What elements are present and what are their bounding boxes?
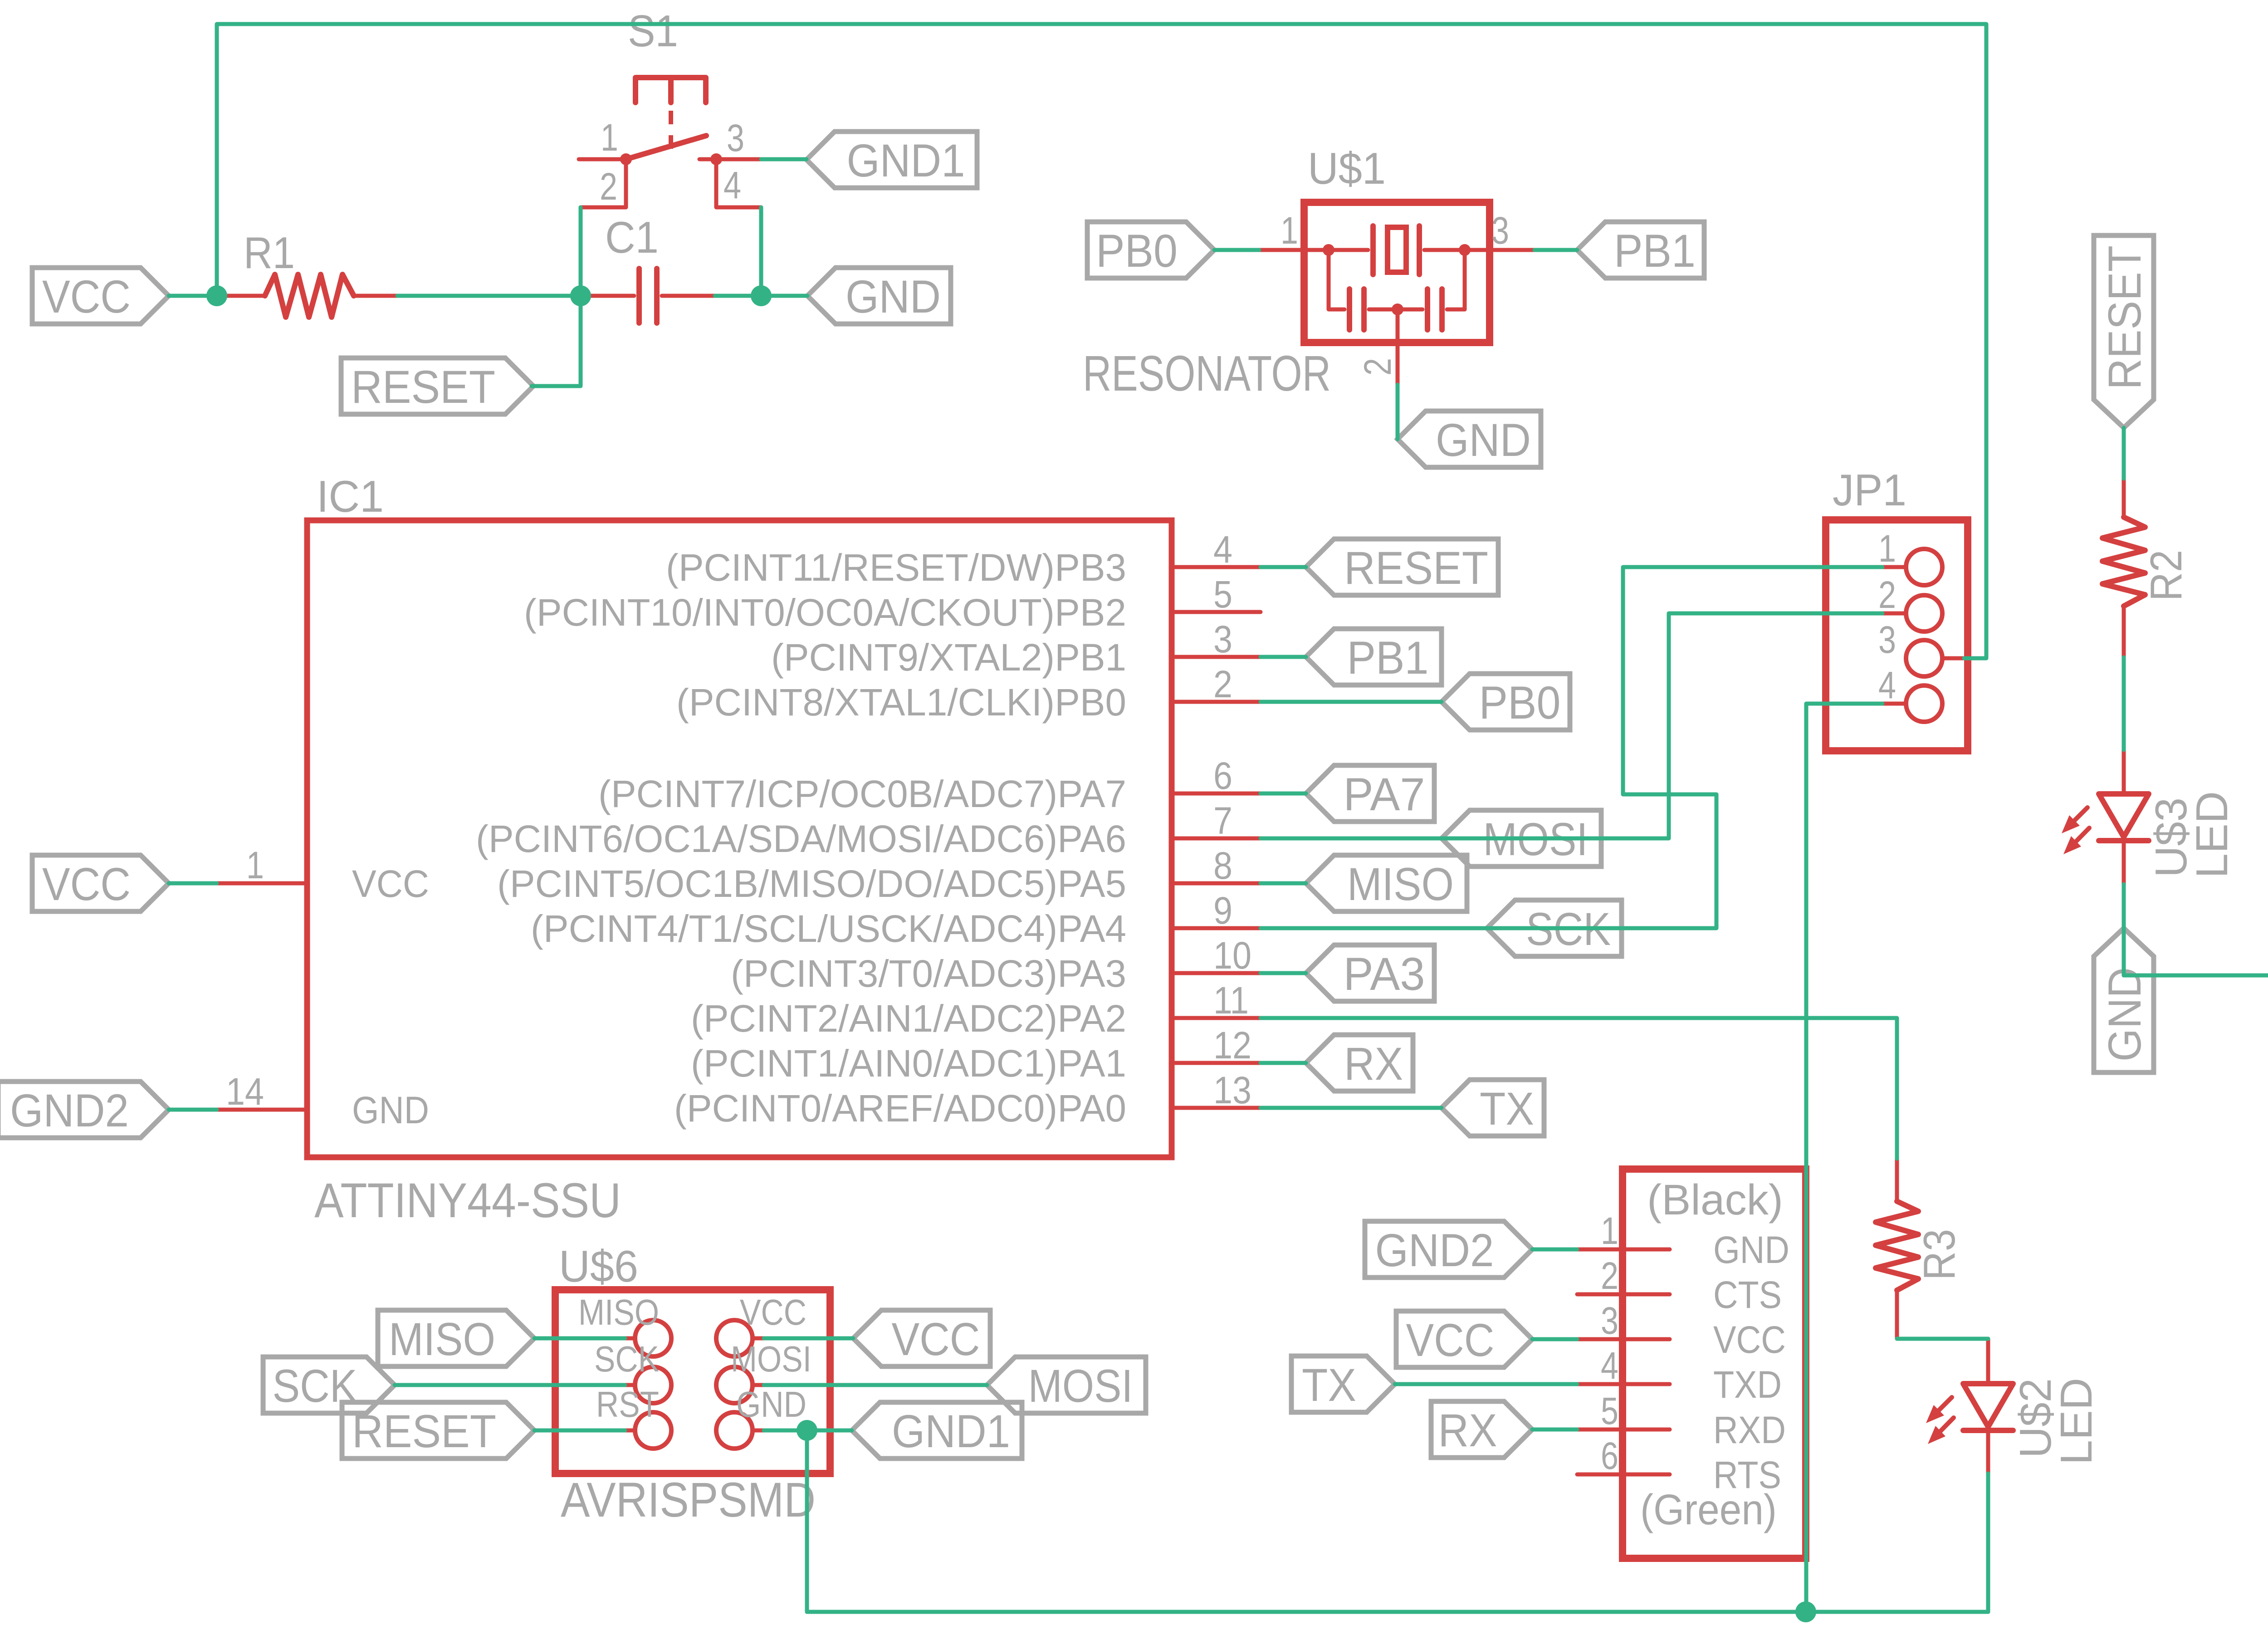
svg-text:(Black): (Black) [1647, 1176, 1783, 1224]
svg-text:(PCINT4/T1/SCL/USCK/ADC4)PA4: (PCINT4/T1/SCL/USCK/ADC4)PA4 [531, 907, 1126, 950]
wire TX flag to FTDI pin4 [1395, 1382, 1577, 1386]
svg-text:TXD: TXD [1713, 1363, 1782, 1406]
U$6 pin circle MOSI [716, 1367, 753, 1403]
wire S1 pin4 down [759, 207, 763, 296]
wire IC1 PA4 through SCK flag to JP1 pin1 [1261, 567, 1882, 928]
JP1 pin 3 circle [1906, 640, 1942, 676]
U$6 pin stub GND [753, 1429, 764, 1433]
net flag GND (R2 column) [2094, 928, 2154, 1072]
svg-text:MISO: MISO [389, 1313, 495, 1365]
JP1 pin 4 stub [1882, 702, 1906, 706]
svg-text:2: 2 [1213, 663, 1232, 705]
FTDI pin 1 line [1577, 1248, 1670, 1252]
svg-text:1: 1 [246, 844, 264, 886]
net flag RESET (top) [341, 358, 533, 414]
svg-text:(PCINT7/ICP/OC0B/ADC7)PA7: (PCINT7/ICP/OC0B/ADC7)PA7 [598, 773, 1126, 815]
svg-text:2: 2 [1878, 573, 1896, 616]
svg-text:5: 5 [1601, 1390, 1618, 1432]
net flag TX (FTDI) [1291, 1356, 1395, 1412]
svg-text:VCC: VCC [1713, 1318, 1786, 1361]
FTDI pin 3 line [1577, 1337, 1670, 1341]
svg-text:VCC: VCC [352, 862, 429, 905]
net flag VCC (FTDI) [1396, 1311, 1532, 1367]
JP1 pin 4 circle [1906, 685, 1942, 722]
wire LED U$2 to bottom net [1986, 1473, 1990, 1612]
svg-text:ATTINY44-SSU: ATTINY44-SSU [314, 1173, 621, 1228]
svg-text:8: 8 [1213, 844, 1232, 887]
svg-text:GND: GND [736, 1384, 807, 1424]
switch S1 contact dot pin3 [710, 153, 722, 165]
wire IC1 PA3 to PA3 flag [1261, 971, 1306, 975]
U$6 pin stub MISO [625, 1336, 634, 1341]
svg-text:LED: LED [2187, 791, 2237, 878]
net flag PB0 (resonator) [1087, 222, 1214, 278]
wire VCC flag to IC1 pin1 [169, 881, 217, 886]
svg-text:PB1: PB1 [1614, 225, 1696, 277]
U$6 pin circle RST [635, 1412, 671, 1449]
IC1 pin 2 PB0 stub [1172, 700, 1261, 704]
JP1 pin 3 stub [1943, 656, 1964, 661]
svg-text:SCK: SCK [594, 1339, 659, 1379]
resistor R2 [2122, 479, 2126, 517]
svg-text:1: 1 [1281, 209, 1298, 252]
IC1 pin 5 PB2 stub [1172, 610, 1261, 614]
wire U$6 to VCC flag [764, 1336, 853, 1341]
FTDI connector box [1623, 1169, 1806, 1558]
resonator pin3 junction dot [1459, 244, 1471, 256]
svg-text:4: 4 [1213, 528, 1232, 571]
net flag VCC (IC1 pin1) [32, 855, 169, 911]
svg-text:U$6: U$6 [559, 1241, 638, 1291]
resistor R3 [1895, 1159, 1899, 1201]
svg-text:6: 6 [1213, 754, 1232, 797]
IC1 pin 1 VCC stub [217, 881, 307, 886]
resistor R1 [217, 294, 265, 298]
svg-text:RX: RX [1344, 1038, 1403, 1090]
wire GND2 flag to FTDI pin1 [1532, 1248, 1577, 1252]
net flag RX (FTDI) [1431, 1401, 1532, 1458]
svg-text:R2: R2 [2141, 550, 2191, 601]
wire IC1 PA7 to PA7 flag [1261, 792, 1306, 796]
svg-text:2: 2 [600, 165, 617, 208]
JP1 pin 2 stub [1882, 612, 1906, 616]
LED U$3 [2122, 750, 2126, 794]
wire IC1 PA2 to R3 [1261, 1018, 1897, 1159]
wire PB0 flag to resonator pin1 [1214, 248, 1259, 252]
svg-text:MOSI: MOSI [1028, 1360, 1133, 1412]
svg-text:GND: GND [352, 1089, 429, 1131]
svg-text:RESET: RESET [352, 1405, 496, 1457]
wire RESET flag to C1 node [532, 296, 581, 386]
net flag VCC (top left) [32, 268, 169, 324]
wire IC1 PB1 to PB1 flag [1261, 655, 1306, 659]
svg-text:VCC: VCC [740, 1292, 807, 1332]
svg-text:PA7: PA7 [1344, 768, 1425, 820]
svg-text:PB0: PB0 [1479, 677, 1561, 729]
wire IC1 PA0 to TX flag [1261, 1106, 1442, 1110]
svg-text:VCC: VCC [42, 858, 131, 910]
svg-text:1: 1 [1601, 1209, 1618, 1252]
net flag GND (at C1) [807, 268, 951, 324]
wire R2 to LED U$3 [2122, 657, 2126, 750]
svg-text:2: 2 [1356, 358, 1399, 376]
net flag GND1 (at S1) [807, 132, 977, 188]
svg-text:PA3: PA3 [1344, 948, 1425, 1000]
FTDI pin 2 line [1577, 1292, 1670, 1297]
svg-text:C1: C1 [605, 212, 659, 262]
wire IC1 PB3 to RESET flag [1261, 565, 1306, 569]
net flag MISO (U$6) [378, 1310, 534, 1366]
IC U1 ATTINY44-SSU box [307, 520, 1172, 1157]
svg-text:(PCINT11/RESET/DW)PB3: (PCINT11/RESET/DW)PB3 [666, 546, 1126, 589]
svg-text:(PCINT10/INT0/OC0A/CKOUT)PB2: (PCINT10/INT0/OC0A/CKOUT)PB2 [524, 591, 1126, 634]
svg-text:(PCINT5/OC1B/MISO/DO/ADC5)PA5: (PCINT5/OC1B/MISO/DO/ADC5)PA5 [497, 862, 1126, 905]
wire C1 to GND node [715, 294, 761, 298]
svg-text:LED: LED [2051, 1378, 2101, 1465]
svg-text:VCC: VCC [42, 271, 131, 323]
IC1 pin 9 PA4 stub [1172, 926, 1261, 930]
svg-text:MISO: MISO [578, 1292, 659, 1332]
net flag TX (PA0) [1442, 1080, 1544, 1136]
wire R3 to LED U$2 [1897, 1337, 1988, 1341]
U$6 pin circle GND [716, 1412, 753, 1449]
svg-text:(PCINT9/XTAL2)PB1: (PCINT9/XTAL2)PB1 [771, 636, 1126, 679]
junction VCC/R1/top net [206, 285, 227, 306]
svg-text:MOSI: MOSI [731, 1339, 811, 1379]
svg-text:3: 3 [1601, 1299, 1618, 1342]
U$6 pin stub VCC [753, 1336, 764, 1341]
IC1 pin 13 PA0 stub [1172, 1106, 1261, 1110]
LED U$2 [1986, 1339, 1990, 1384]
svg-text:2: 2 [1601, 1254, 1618, 1297]
svg-text:6: 6 [1601, 1434, 1618, 1477]
U$6 pin stub RST [625, 1429, 634, 1433]
U$6 pin circle VCC [716, 1320, 753, 1356]
junction U$6 GND1 node [797, 1420, 817, 1441]
svg-text:RX: RX [1438, 1405, 1497, 1456]
net flag MOSI (U$6) [987, 1357, 1146, 1413]
svg-text:7: 7 [1213, 799, 1232, 842]
junction C1 left node [570, 285, 591, 306]
wire R1 to C1 node [397, 294, 581, 298]
U$6 pin stub SCK [625, 1383, 634, 1387]
net flag RX (PA1) [1306, 1035, 1413, 1091]
svg-text:1: 1 [601, 116, 618, 159]
net flag PB1 (PB1) [1306, 629, 1442, 685]
wire U$6 GND1 junction down [805, 1430, 809, 1612]
svg-text:GND2: GND2 [1375, 1224, 1494, 1276]
net flag MOSI (PA6) [1442, 810, 1601, 866]
net flag GND (resonator) [1398, 411, 1541, 467]
IC1 pin 11 PA2 stub [1172, 1016, 1261, 1020]
ISP header U$6 box [555, 1290, 830, 1473]
resonator pin1 junction dot [1323, 244, 1334, 256]
svg-text:RESET: RESET [2099, 245, 2151, 390]
wire JP1 pin4 down to bottom net [1806, 704, 1882, 1612]
FTDI pin 6 line [1577, 1473, 1670, 1477]
wire VCC to top net [217, 24, 1986, 658]
svg-text:R1: R1 [244, 228, 295, 278]
wire GND flag to LED U$5 bottom [2124, 885, 2268, 975]
wire IC1 PA5 to MISO flag [1261, 881, 1306, 886]
U$6 pin stub MOSI [753, 1383, 764, 1387]
net flag PB0 (PB0) [1442, 674, 1570, 730]
FTDI pin 4 line [1577, 1382, 1670, 1386]
svg-text:RESET: RESET [351, 361, 495, 413]
net flag VCC (U$6) [853, 1310, 990, 1366]
junction C1 right node [751, 285, 772, 306]
IC1 pin 6 PA7 stub [1172, 792, 1261, 796]
IC1 pin 8 PA5 stub [1172, 881, 1261, 886]
svg-text:4: 4 [1601, 1344, 1618, 1387]
U$6 pin circle MISO [635, 1320, 671, 1356]
wire IC1 PA1 to RX flag [1261, 1061, 1306, 1065]
IC1 pin 14 GND stub [217, 1108, 307, 1112]
net flag PA7 (PA7) [1306, 765, 1434, 822]
switch S1 body [635, 78, 706, 103]
wire IC1 PA6 through MOSI flag to JP1 pin2 [1261, 613, 1882, 838]
wire U$6 to MOSI flag [764, 1383, 987, 1387]
svg-text:13: 13 [1213, 1069, 1251, 1111]
svg-text:GND1: GND1 [847, 135, 965, 186]
svg-text:GND1: GND1 [892, 1405, 1010, 1457]
svg-text:GND: GND [1713, 1229, 1789, 1271]
svg-text:RST: RST [596, 1384, 659, 1424]
svg-text:TX: TX [1480, 1083, 1534, 1135]
switch S1 contact dot pin1 [620, 153, 632, 165]
resonator U$1 box [1304, 202, 1490, 343]
svg-text:10: 10 [1213, 934, 1251, 977]
svg-text:(PCINT3/T0/ADC3)PA3: (PCINT3/T0/ADC3)PA3 [731, 952, 1126, 995]
wire RX flag to FTDI pin5 [1532, 1428, 1577, 1432]
svg-text:12: 12 [1213, 1024, 1251, 1067]
IC1 pin 7 PA6 stub [1172, 837, 1261, 841]
svg-text:RTS: RTS [1713, 1454, 1781, 1496]
junction bottom net / FTDI [1795, 1601, 1816, 1622]
svg-text:CTS: CTS [1713, 1273, 1782, 1316]
net flag SCK (PA4) [1487, 900, 1622, 956]
svg-text:3: 3 [727, 117, 744, 159]
svg-text:4: 4 [723, 164, 741, 206]
svg-text:GND: GND [1436, 414, 1531, 466]
resonator pin2 junction dot [1392, 303, 1403, 315]
net flag GND2 (IC1 pin14) [0, 1082, 169, 1138]
net flag GND1 (U$6) [852, 1402, 1022, 1459]
svg-text:R3: R3 [1914, 1229, 1964, 1280]
svg-text:3: 3 [1878, 618, 1896, 661]
svg-text:4: 4 [1878, 664, 1896, 706]
wire VCC flag to FTDI pin3 [1532, 1337, 1577, 1341]
wire SCK flag to U$6 [395, 1383, 625, 1387]
svg-text:RESET: RESET [1344, 542, 1488, 594]
svg-text:11: 11 [1213, 979, 1249, 1022]
svg-text:9: 9 [1213, 889, 1232, 932]
svg-text:PB1: PB1 [1347, 632, 1429, 684]
net flag RESET (U$6) [342, 1402, 534, 1459]
JP1 pin 1 stub [1882, 565, 1906, 569]
svg-text:RESONATOR: RESONATOR [1083, 346, 1331, 401]
wire bottom net [807, 1610, 1988, 1614]
IC1 pin 12 PA1 stub [1172, 1061, 1261, 1065]
svg-text:S1: S1 [628, 6, 678, 56]
svg-text:U$1: U$1 [1308, 143, 1386, 193]
wire resonator pin3 to PB1 flag [1535, 248, 1577, 252]
svg-text:PB0: PB0 [1096, 225, 1178, 277]
svg-text:(PCINT6/OC1A/SDA/MOSI/ADC6)PA6: (PCINT6/OC1A/SDA/MOSI/ADC6)PA6 [476, 817, 1126, 860]
svg-text:VCC: VCC [1406, 1314, 1495, 1366]
wire LED U$3 to GND flag [2122, 884, 2126, 975]
svg-text:IC1: IC1 [317, 471, 384, 521]
IC1 pin 3 PB1 stub [1172, 655, 1261, 659]
IC1 pin 10 PA3 stub [1172, 971, 1261, 975]
wire resonator pin2 to GND flag [1396, 385, 1400, 439]
svg-text:AVRISPSMD: AVRISPSMD [561, 1472, 816, 1527]
wire RESET flag to U$6 [534, 1429, 625, 1433]
svg-text:3: 3 [1213, 618, 1232, 661]
capacitor C1 [581, 294, 634, 298]
JP1 pin 1 circle [1906, 549, 1942, 585]
wire RESET flag to R2 [2122, 428, 2126, 479]
svg-text:TX: TX [1302, 1359, 1356, 1411]
svg-text:(PCINT8/XTAL1/CLKI)PB0: (PCINT8/XTAL1/CLKI)PB0 [676, 681, 1126, 724]
net flag MISO (PA5) [1306, 855, 1467, 911]
resonator U$1 internals [1259, 248, 1368, 252]
svg-text:1: 1 [1878, 527, 1896, 570]
wire S1 pin2 down [579, 207, 583, 296]
wire S1 pin3 to GND1 flag [761, 157, 807, 162]
net flag SCK (U$6) [263, 1357, 395, 1413]
svg-text:(PCINT2/AIN1/ADC2)PA2: (PCINT2/AIN1/ADC2)PA2 [691, 997, 1126, 1040]
svg-text:VCC: VCC [892, 1313, 980, 1365]
net flag RESET (R2 column) [2094, 235, 2154, 428]
svg-text:3: 3 [1491, 209, 1509, 252]
svg-text:14: 14 [226, 1070, 264, 1113]
net flag PB1 (resonator) [1577, 222, 1704, 278]
JP1 pin 2 circle [1906, 595, 1942, 631]
wire U$6 to GND1 flag [764, 1429, 852, 1433]
net flag RESET (PB3) [1306, 539, 1498, 595]
U$6 pin circle SCK [635, 1367, 671, 1403]
svg-text:JP1: JP1 [1833, 465, 1906, 515]
FTDI pin 5 line [1577, 1428, 1670, 1432]
wire VCC flag to R1 [169, 294, 217, 298]
svg-text:5: 5 [1213, 573, 1232, 616]
net flag GND2 (FTDI) [1365, 1221, 1532, 1278]
svg-text:RXD: RXD [1713, 1409, 1786, 1451]
svg-text:GND: GND [2099, 967, 2151, 1062]
wire GND2 flag to IC1 pin14 [169, 1108, 217, 1112]
svg-text:MISO: MISO [1347, 858, 1454, 910]
connector JP1 box [1826, 520, 1968, 751]
net flag PA3 (PA3) [1306, 945, 1434, 1001]
svg-text:GND2: GND2 [10, 1085, 129, 1136]
IC1 pin 4 PB3 stub [1172, 565, 1261, 569]
svg-text:GND: GND [846, 271, 941, 323]
wire MISO flag to U$6 [534, 1336, 625, 1341]
wire GND node to GND flag [761, 294, 807, 298]
svg-text:(PCINT1/AIN0/ADC1)PA1: (PCINT1/AIN0/ADC1)PA1 [691, 1042, 1126, 1085]
svg-text:(PCINT0/AREF/ADC0)PA0: (PCINT0/AREF/ADC0)PA0 [674, 1087, 1126, 1130]
wire IC1 PB0 to PB0 flag [1261, 700, 1442, 704]
